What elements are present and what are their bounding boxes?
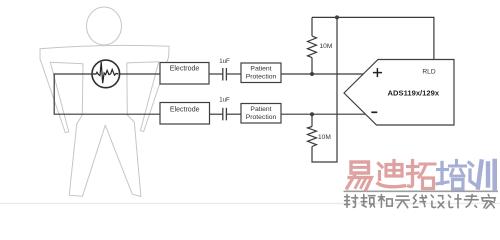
subtitle char 6 <box>431 195 444 208</box>
subtitle char 4 <box>396 196 410 208</box>
watermark underline <box>344 190 499 192</box>
junction node top wire <box>335 15 339 19</box>
wire top to R1 <box>311 17 313 36</box>
svg-text:Patient: Patient <box>250 66 271 73</box>
ECG trace <box>93 62 119 83</box>
subtitle char 5 <box>413 195 426 208</box>
Electrode block 1 <box>160 63 209 85</box>
minus input marker <box>371 111 377 113</box>
svg-text:RLD: RLD <box>422 69 435 76</box>
svg-text:10M: 10M <box>320 43 333 50</box>
watermark subtitle chars (gray) <box>345 195 496 209</box>
wire heart right to Electrode1 <box>119 73 160 75</box>
subtitle char 9 <box>482 195 496 209</box>
svg-text:Electrode: Electrode <box>170 66 200 73</box>
head <box>87 7 122 45</box>
faint page divider line <box>0 203 500 205</box>
junction node input1 <box>310 72 314 76</box>
svg-text:1uF: 1uF <box>219 96 230 103</box>
RLD feedback top wire <box>312 17 434 59</box>
svg-text:Patient: Patient <box>250 106 271 113</box>
subtitle char 7 <box>448 195 461 208</box>
plus input marker <box>373 68 382 77</box>
op-amp / ADC chip ADS119x/129x <box>344 60 454 126</box>
resistor R1 10M <box>308 36 317 58</box>
wire R2 to node <box>311 114 313 126</box>
subtitle char 1 <box>345 195 358 208</box>
svg-text:1uF: 1uF <box>219 58 230 65</box>
Electrode block 2 <box>160 103 210 125</box>
human body figure (light outline) <box>40 7 169 197</box>
wire cap1 to PP1 <box>226 73 241 75</box>
feedback branch vertical wire <box>312 17 337 162</box>
capacitor C2 1uF <box>223 108 227 121</box>
junction node input2 <box>310 112 314 116</box>
svg-text:ADS119x/129x: ADS119x/129x <box>388 88 440 97</box>
watermark char 3 (pink) <box>408 161 436 189</box>
heart / ECG source circle <box>92 60 120 88</box>
wire cap2 to PP2 <box>226 113 241 115</box>
wire PP1 to amp + input <box>281 73 363 75</box>
watermark char 5 (blue) <box>469 161 495 189</box>
svg-text:10M: 10M <box>318 134 331 141</box>
resistor R2 10M <box>308 127 317 147</box>
Patient Protection block 2 <box>241 104 281 124</box>
Patient Protection block 1 <box>241 63 281 83</box>
torso, shoulders, arms, legs outline <box>40 45 169 196</box>
wire R1 to node <box>311 58 313 74</box>
subtitle char 2 <box>361 195 375 207</box>
subtitle char 8 <box>464 195 478 208</box>
watermark char 4 (blue) <box>437 161 466 190</box>
watermark char 1 (pink) <box>347 162 372 190</box>
watermark <box>344 161 499 209</box>
wire PP2 to amp - input <box>281 113 365 115</box>
watermark char 2 (pink) <box>378 161 405 187</box>
wire Electrode1 to cap1 <box>209 73 223 75</box>
schematic dark lines <box>54 17 434 162</box>
svg-text:Protection: Protection <box>246 73 277 80</box>
wire heart left around body to Electrode2 <box>54 74 160 114</box>
capacitor C1 1uF <box>223 68 227 81</box>
subtitle char 3 <box>378 195 392 208</box>
wire Electrode2 to cap2 <box>210 113 223 115</box>
svg-text:Electrode: Electrode <box>170 106 200 113</box>
svg-text:Protection: Protection <box>246 114 277 121</box>
